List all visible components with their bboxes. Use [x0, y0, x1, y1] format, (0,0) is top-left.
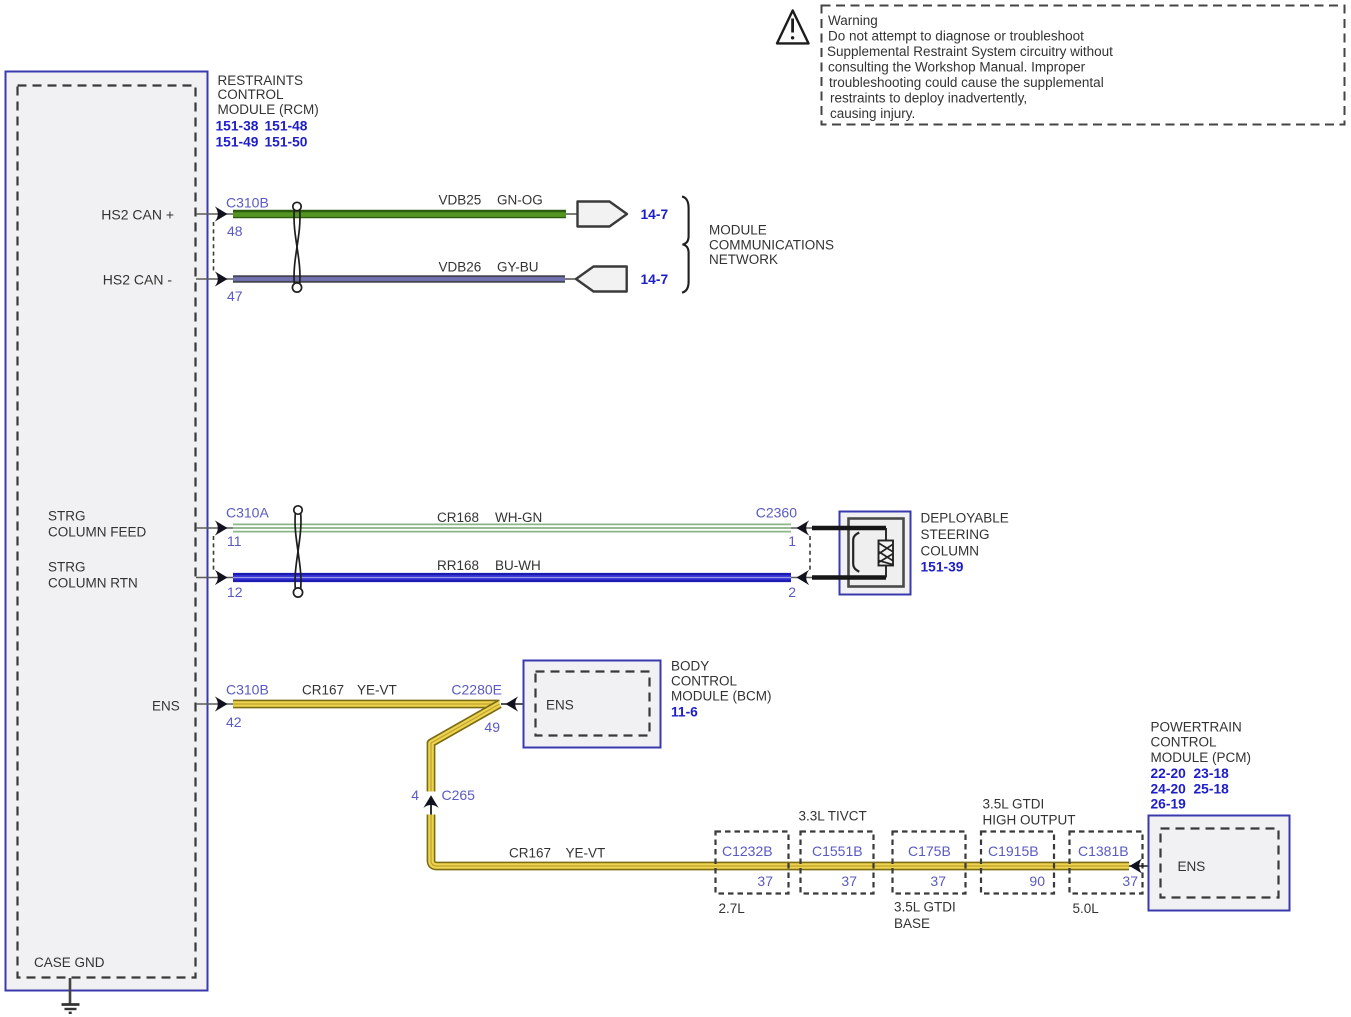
wire CR168 WH-GN: [233, 524, 791, 533]
svg-text:151-49: 151-49: [216, 135, 259, 150]
svg-text:1: 1: [788, 533, 796, 549]
svg-text:37: 37: [841, 873, 857, 889]
wire label CR167 YE-VT (upper): [302, 683, 397, 698]
wire stub pin 12: [196, 577, 233, 579]
svg-text:12: 12: [227, 584, 243, 600]
svg-text:CR168: CR168: [437, 510, 479, 525]
module PCM title: [1151, 720, 1252, 812]
svg-text:COLUMN FEED: COLUMN FEED: [48, 525, 147, 540]
svg-text:COLUMN: COLUMN: [921, 544, 980, 559]
svg-text:ENS: ENS: [1178, 859, 1206, 874]
connector C1381B box: [1070, 832, 1143, 894]
svg-text:C265: C265: [442, 787, 476, 803]
svg-text:37: 37: [930, 873, 946, 889]
svg-text:COLUMN RTN: COLUMN RTN: [48, 576, 138, 591]
off-page connector (CAN+): [566, 202, 627, 227]
svg-text:RR168: RR168: [437, 558, 479, 573]
module BCM box: [524, 661, 661, 748]
svg-text:NETWORK: NETWORK: [709, 252, 778, 267]
svg-text:HS2 CAN +: HS2 CAN +: [101, 207, 174, 223]
svg-text:151-48: 151-48: [265, 119, 308, 134]
svg-text:C2280E: C2280E: [451, 682, 502, 698]
svg-text:151-39: 151-39: [921, 560, 964, 575]
brace module communications network: [682, 197, 689, 293]
svg-text:HS2 CAN -: HS2 CAN -: [103, 272, 173, 288]
wire VDB25 GN-OG: [233, 210, 566, 219]
svg-text:CONTROL: CONTROL: [671, 674, 737, 689]
svg-text:STRG: STRG: [48, 509, 86, 524]
wire into column pin 2: [812, 575, 886, 580]
svg-text:4: 4: [411, 787, 419, 803]
svg-text:ENS: ENS: [546, 698, 574, 713]
svg-text:Warning: Warning: [828, 13, 878, 28]
module PCM box: [1149, 816, 1290, 911]
svg-text:C310B: C310B: [226, 682, 269, 698]
svg-text:BASE: BASE: [894, 916, 930, 931]
connector arrow C2280E pin 49: [501, 696, 536, 711]
svg-text:26-19: 26-19: [1151, 797, 1187, 812]
svg-text:BODY: BODY: [671, 659, 709, 674]
wire stub pin 47: [196, 278, 233, 280]
coil element: [879, 528, 894, 578]
svg-text:24-20: 24-20: [1151, 782, 1187, 797]
svg-text:23-18: 23-18: [1194, 766, 1230, 781]
component label DEPLOYABLE STEERING COLUMN: [921, 511, 1009, 575]
twisted pair symbol (STRG): [293, 506, 302, 597]
svg-text:37: 37: [757, 873, 773, 889]
wire CR167 YE-VT (upper run): [233, 700, 500, 709]
module BCM title: [671, 659, 772, 720]
connector bracket C310B: [213, 222, 215, 272]
wire CR167 branch to C265: [431, 704, 500, 792]
svg-text:MODULE (BCM): MODULE (BCM): [671, 689, 772, 704]
svg-text:42: 42: [226, 714, 242, 730]
wire CR167 YE-VT (lower run): [431, 815, 1129, 867]
svg-text:MODULE (PCM): MODULE (PCM): [1151, 750, 1252, 765]
svg-text:restraints to deploy inadverte: restraints to deploy inadvertently,: [830, 91, 1027, 106]
svg-text:C1551B: C1551B: [812, 843, 863, 859]
wire label VDB26 GY-BU: [439, 260, 539, 275]
wire label CR168 WH-GN: [437, 510, 542, 525]
svg-text:HIGH OUTPUT: HIGH OUTPUT: [983, 813, 1076, 828]
svg-text:47: 47: [227, 288, 243, 304]
connector arrow C310A pin 11: [215, 520, 228, 535]
svg-text:37: 37: [1122, 873, 1138, 889]
svg-text:C175B: C175B: [908, 843, 951, 859]
wire VDB26 GY-BU: [233, 275, 565, 283]
deployable steering column component: [812, 512, 911, 595]
svg-text:49: 49: [484, 719, 500, 735]
wire RR168 BU-WH: [233, 573, 791, 582]
connector arrow C310B pin 42: [215, 696, 228, 711]
svg-text:11-6: 11-6: [671, 705, 698, 720]
svg-text:CASE GND: CASE GND: [34, 955, 105, 970]
svg-text:GN-OG: GN-OG: [497, 193, 543, 208]
svg-text:3.5L GTDI: 3.5L GTDI: [894, 900, 956, 915]
connector arrow C265 pin 4 (up): [430, 800, 432, 815]
svg-text:C1381B: C1381B: [1078, 843, 1129, 859]
svg-text:troubleshooting could cause th: troubleshooting could cause the suppleme…: [829, 75, 1104, 90]
svg-text:C1232B: C1232B: [722, 843, 773, 859]
connector arrow C310A pin 12: [215, 570, 228, 585]
engine label 3.5L GTDI HIGH OUTPUT: [983, 797, 1076, 828]
svg-text:consulting the Workshop Manual: consulting the Workshop Manual. Improper: [828, 60, 1086, 75]
connector bracket C2360: [809, 536, 811, 570]
connector bracket C310A: [213, 536, 215, 570]
connector arrow C2360 pin 1: [791, 520, 814, 535]
svg-text:MODULE: MODULE: [709, 223, 767, 238]
svg-text:VDB26: VDB26: [439, 260, 482, 275]
svg-text:BU-WH: BU-WH: [495, 558, 541, 573]
svg-text:C310A: C310A: [226, 505, 269, 521]
clockspring arc: [853, 533, 859, 572]
svg-text:causing injury.: causing injury.: [830, 106, 915, 121]
svg-text:WH-GN: WH-GN: [495, 510, 542, 525]
svg-text:C310B: C310B: [226, 195, 269, 211]
connector C1551B box: [801, 832, 874, 894]
svg-text:VDB25: VDB25: [439, 193, 482, 208]
svg-text:DEPLOYABLE: DEPLOYABLE: [921, 511, 1009, 526]
module RCM title text: [216, 73, 319, 150]
svg-text:CONTROL: CONTROL: [218, 87, 284, 102]
svg-text:25-18: 25-18: [1194, 782, 1230, 797]
connector C1915B box: [981, 832, 1054, 894]
svg-text:11: 11: [227, 533, 242, 549]
connector C175B box: [893, 832, 966, 894]
wire stub pin 42: [196, 703, 233, 705]
wire stub pin 48: [196, 213, 233, 215]
svg-text:5.0L: 5.0L: [1073, 901, 1100, 916]
connector C265: [411, 787, 475, 815]
module RCM box: [6, 72, 208, 991]
wire into column pin 1: [812, 526, 886, 531]
wire label RR168 BU-WH: [437, 558, 541, 573]
svg-text:Do not attempt to diagnose or: Do not attempt to diagnose or troublesho…: [828, 29, 1084, 44]
warning note box: [822, 6, 1345, 125]
off-page connector (CAN-): [565, 267, 627, 292]
svg-text:2: 2: [788, 584, 796, 600]
svg-text:STRG: STRG: [48, 560, 86, 575]
svg-text:3.5L GTDI: 3.5L GTDI: [983, 797, 1045, 812]
svg-text:YE-VT: YE-VT: [566, 846, 606, 861]
svg-text:YE-VT: YE-VT: [357, 683, 397, 698]
net label MODULE COMMUNICATIONS NETWORK: [709, 223, 834, 268]
svg-text:14-7: 14-7: [641, 272, 669, 287]
svg-text:22-20: 22-20: [1151, 766, 1187, 781]
svg-text:48: 48: [227, 223, 243, 239]
svg-text:COMMUNICATIONS: COMMUNICATIONS: [709, 238, 834, 253]
pin label STRG COLUMN FEED: [48, 509, 147, 540]
pin label STRG COLUMN RTN: [48, 560, 138, 591]
svg-text:MODULE (RCM): MODULE (RCM): [218, 102, 319, 117]
connector arrow C2360 pin 2: [791, 570, 814, 585]
svg-text:14-7: 14-7: [641, 207, 669, 222]
ground CASE GND: [34, 955, 105, 1013]
svg-text:GY-BU: GY-BU: [497, 260, 539, 275]
wire label CR167 YE-VT (lower): [509, 846, 605, 861]
svg-text:90: 90: [1029, 873, 1045, 889]
svg-text:STEERING: STEERING: [921, 527, 990, 542]
svg-text:POWERTRAIN: POWERTRAIN: [1151, 720, 1242, 735]
svg-text:151-38: 151-38: [216, 119, 259, 134]
svg-text:3.3L TIVCT: 3.3L TIVCT: [799, 809, 867, 824]
wire stub pin 11: [196, 527, 233, 529]
svg-text:151-50: 151-50: [265, 135, 308, 150]
connector arrow C310B pin 48: [215, 206, 228, 221]
connector arrow C310B pin 47: [215, 271, 228, 286]
twisted pair symbol (CAN): [292, 202, 301, 292]
svg-text:RESTRAINTS: RESTRAINTS: [218, 73, 304, 88]
connector arrow C1381B pin 37 (into PCM): [1129, 858, 1161, 873]
svg-text:2.7L: 2.7L: [719, 901, 746, 916]
svg-text:CR167: CR167: [509, 846, 551, 861]
warning triangle: [777, 11, 809, 44]
svg-text:ENS: ENS: [152, 699, 180, 714]
svg-text:C2360: C2360: [756, 505, 797, 521]
connector C1232B box: [716, 832, 789, 894]
svg-text:CR167: CR167: [302, 683, 344, 698]
svg-text:CONTROL: CONTROL: [1151, 735, 1217, 750]
engine label 3.5L GTDI BASE: [894, 900, 956, 932]
wire label VDB25 GN-OG: [439, 193, 543, 208]
svg-text:C1915B: C1915B: [988, 843, 1039, 859]
svg-text:Supplemental Restraint System: Supplemental Restraint System circuitry …: [827, 44, 1113, 59]
